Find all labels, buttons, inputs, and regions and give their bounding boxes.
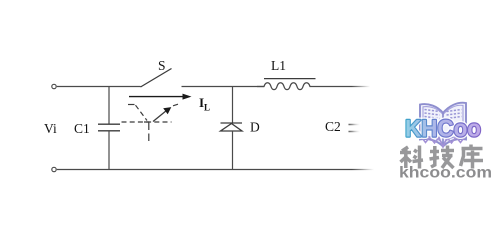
svg-text:khcoo.com: khcoo.com [399,165,492,182]
input terminal top-left [52,84,56,88]
svg-text:C1: C1 [74,121,90,136]
wire C1 branch top [108,87,110,125]
svg-text:C2: C2 [325,119,341,134]
svg-text:D: D [250,120,260,135]
watermark white glow [347,59,500,203]
diode D [221,123,243,131]
svg-text:Vi: Vi [44,121,57,136]
watermark 科技库 text (drawn strokes) [400,145,483,169]
watermark book logo [420,103,466,147]
wire bottom (terminal to fade under watermark) [57,169,374,171]
svg-text:S: S [158,58,166,73]
wire top-middle (switch to inductor) [182,86,265,88]
科 [402,147,408,151]
inductor L1 coil [257,83,317,90]
capacitor C1 [98,124,120,131]
input terminal bottom-left [52,167,56,171]
svg-text:L: L [204,103,210,113]
技 [430,150,439,154]
capacitor C2 (fading under watermark) [349,125,369,132]
transistor Q1 (dashed equivalent of switch S) [122,104,179,141]
switch S blade [141,69,172,88]
wire top-right (inductor to fade under watermark) [317,86,370,88]
wire diode branch top [232,87,234,124]
svg-text:KHCoo: KHCoo [405,116,481,143]
svg-text:L1: L1 [271,58,286,73]
库 [469,145,473,149]
wire diode branch bottom [232,131,234,170]
inductor current arrow IL [129,96,185,98]
watermark KHCoo text [405,116,481,143]
wire C1 branch bottom [108,131,110,170]
wire top-left (terminal to switch) [57,86,141,88]
inductor L1 core bar [264,78,316,80]
